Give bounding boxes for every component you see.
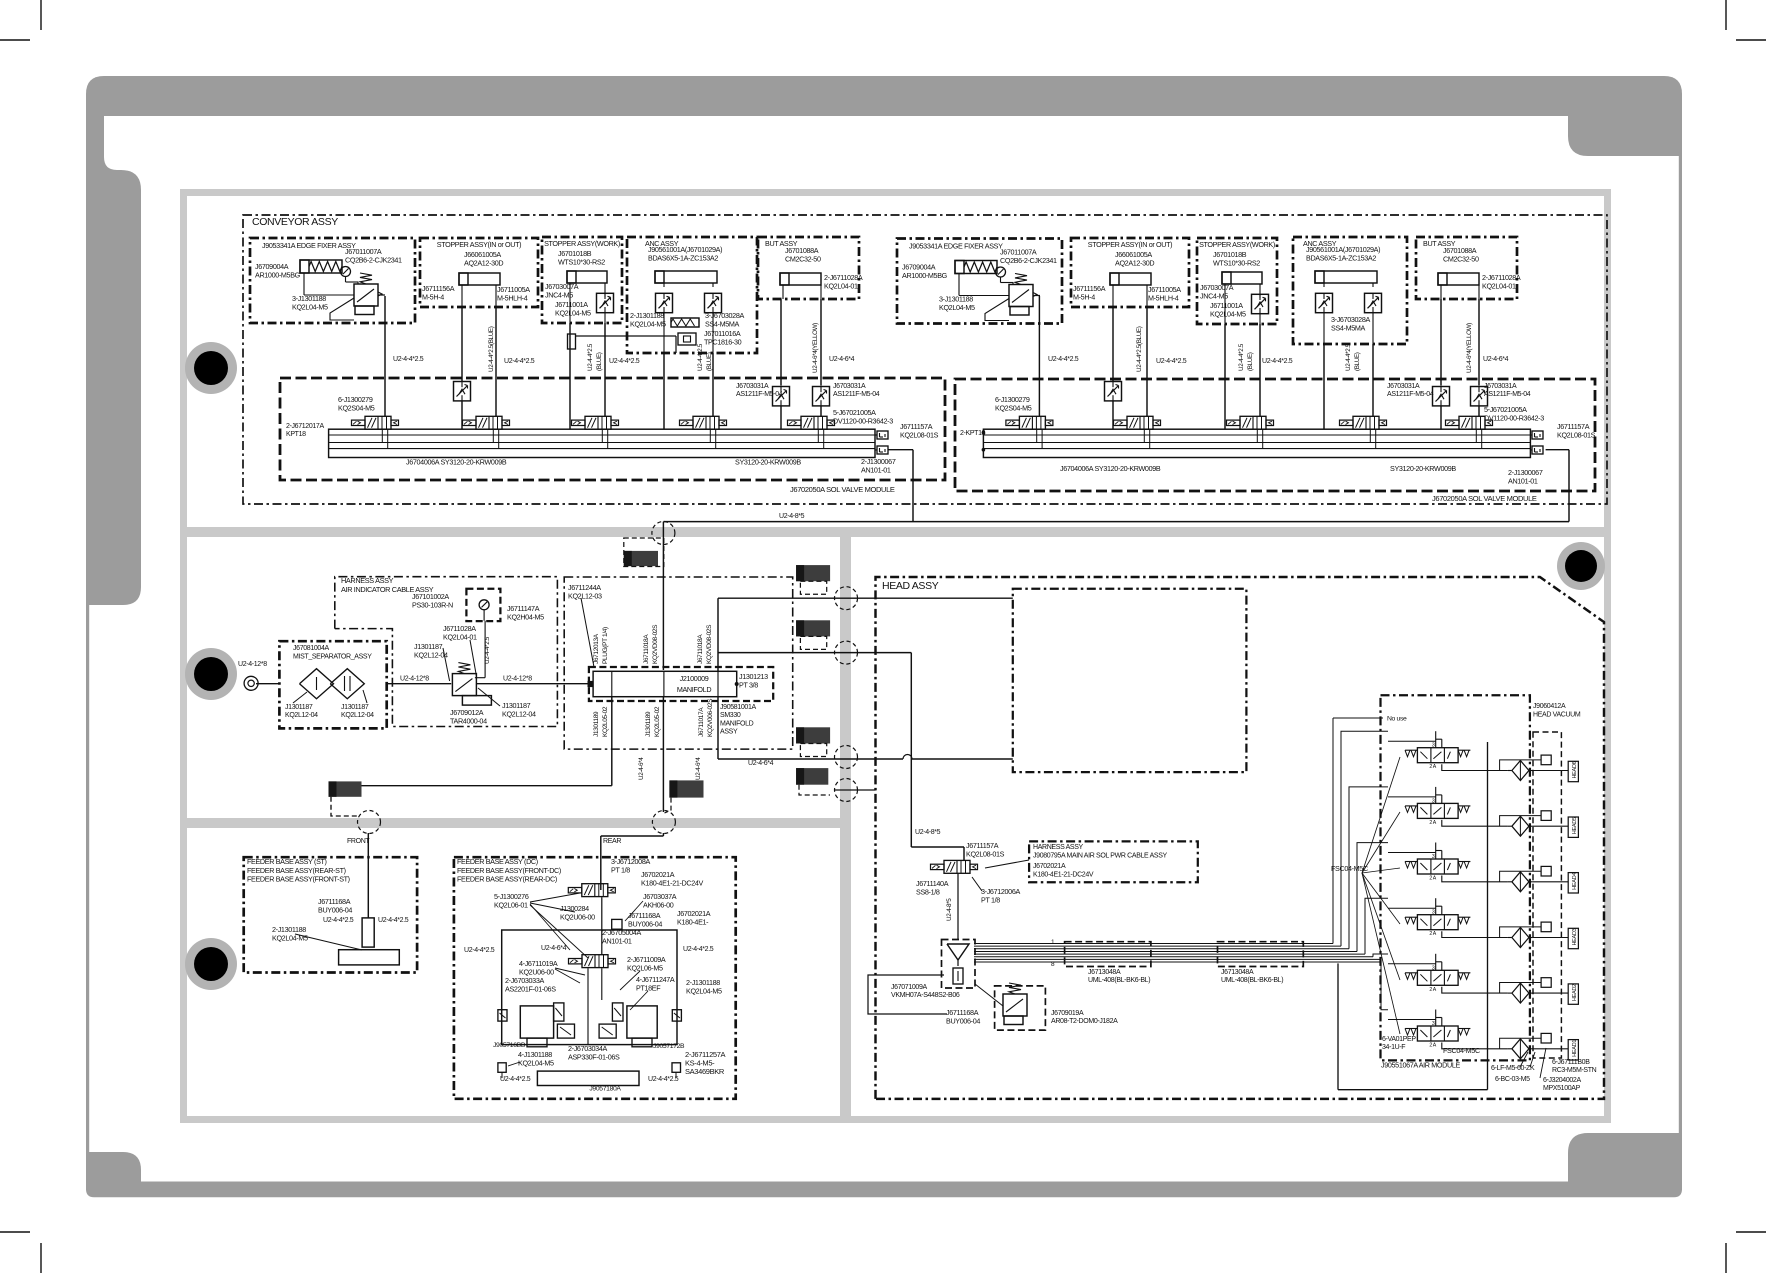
svg-text:BDAS6X5-1A-ZC153A2: BDAS6X5-1A-ZC153A2	[648, 253, 718, 262]
svg-text:MANIFOLD: MANIFOLD	[677, 685, 711, 694]
svg-text:J67081004A: J67081004A	[293, 645, 329, 652]
punch hole left 1	[185, 342, 237, 394]
BUT ASSY box	[1416, 237, 1517, 299]
punch hole left 2	[185, 648, 237, 700]
HARNESS ASSY power cable box	[1029, 841, 1198, 882]
head valve unit HEAD5	[1417, 803, 1458, 818]
black connector right column 4	[796, 768, 828, 785]
regulator AR08 dashed box	[995, 986, 1046, 1030]
center line down to feeder	[662, 697, 664, 812]
cylinder BDAS6X5	[1315, 271, 1377, 283]
svg-text:J6711018A: J6711018A	[643, 634, 650, 664]
cylinder CQ2B6 (spring return)	[955, 261, 997, 274]
svg-text:UML-408(BL-BK6-BL): UML-408(BL-BK6-BL)	[1221, 977, 1283, 984]
svg-text:KQ2VD08-02S: KQ2VD08-02S	[706, 624, 713, 664]
svg-text:6-BC-03-M5: 6-BC-03-M5	[1495, 1076, 1530, 1083]
pressure switch dashed box	[466, 589, 500, 621]
mist filter 2	[330, 669, 364, 699]
svg-text:PLUG(PT 1/4): PLUG(PT 1/4)	[602, 627, 609, 664]
svg-text:KQ2L04-M5: KQ2L04-M5	[1210, 309, 1246, 318]
valve bank risers	[1332, 718, 1334, 944]
solenoid valve SY3120	[1019, 416, 1045, 429]
svg-text:BDAS6X5-1A-ZC153A2: BDAS6X5-1A-ZC153A2	[1306, 253, 1376, 262]
svg-text:J6711018A: J6711018A	[697, 634, 704, 664]
svg-text:AR1000-M5BG: AR1000-M5BG	[902, 271, 948, 280]
svg-text:BUY006-04: BUY006-04	[318, 905, 352, 914]
outer gray binder frame	[86, 76, 1682, 1197]
svg-text:U2-4-4*2.5(BLUE): U2-4-4*2.5(BLUE)	[1136, 326, 1143, 372]
svg-text:U2-4-4*2.5: U2-4-4*2.5	[1048, 356, 1079, 363]
EDGE FIXER ASSY box	[250, 238, 415, 323]
svg-text:J6703031A: J6703031A	[1387, 383, 1420, 390]
air inlet symbol	[244, 676, 258, 690]
svg-text:KQ2L04-M5: KQ2L04-M5	[272, 933, 308, 942]
svg-text:U2-4-4*2.5: U2-4-4*2.5	[378, 917, 409, 924]
FEEDER BASE ASSY (ST) box	[244, 857, 417, 972]
STOPPER ASSY(WORK) box	[542, 237, 622, 323]
head port box HEAD3	[1568, 928, 1578, 948]
svg-text:J6711017A: J6711017A	[698, 707, 705, 737]
head port box HEAD4	[1568, 873, 1578, 893]
svg-text:SY3120-20-KRW009B: SY3120-20-KRW009B	[1390, 464, 1456, 473]
air module box	[1381, 695, 1530, 1060]
svg-text:M-5H-4: M-5H-4	[422, 292, 444, 301]
feeder bottom bar	[537, 1071, 639, 1085]
svg-text:KQ2V006-02S: KQ2V006-02S	[707, 698, 714, 737]
svg-text:PS30-103R-N: PS30-103R-N	[412, 600, 453, 609]
svg-text:(BLUE): (BLUE)	[596, 352, 603, 371]
svg-text:U2-4-4*2.5: U2-4-4*2.5	[323, 917, 354, 924]
CONVEYOR ASSY outer box	[243, 215, 1607, 504]
svg-text:U2-4-4*2.5: U2-4-4*2.5	[587, 343, 594, 371]
head collector line	[1487, 742, 1489, 1057]
svg-text:U2-4-12*8: U2-4-12*8	[503, 676, 532, 683]
black connector block front feed	[329, 781, 362, 796]
feeder ST valve	[362, 918, 374, 947]
svg-text:SS4-M5MA: SS4-M5MA	[705, 319, 740, 328]
svg-text:DV1120-00-R3642-3: DV1120-00-R3642-3	[833, 416, 893, 425]
wire stopper-io to valve2 (right)	[1112, 307, 1114, 382]
head valve unit HEAD3	[1417, 915, 1458, 930]
solenoid valve SY3120	[1459, 416, 1485, 429]
port square HEAD5	[1541, 811, 1551, 821]
svg-text:U2-4-6*4: U2-4-6*4	[541, 945, 567, 952]
feeder valve K180 mid	[582, 955, 608, 968]
flow fittings cluster	[498, 1010, 507, 1021]
svg-text:AR08-T2-DOM0-J182A: AR08-T2-DOM0-J182A	[1051, 1018, 1118, 1025]
svg-text:AS1211F-M5-04: AS1211F-M5-04	[833, 391, 880, 398]
HARNESS ASSY / AIR INDICATOR CABLE ASSY box (L-shape)	[335, 577, 558, 727]
crop mark top-right	[1726, 0, 1766, 40]
black connector right column 2	[796, 620, 830, 636]
svg-text:JNC4-M5: JNC4-M5	[545, 290, 573, 299]
svg-text:CM2C32-50: CM2C32-50	[785, 254, 821, 263]
svg-text:ASP330F-01-06S: ASP330F-01-06S	[568, 1052, 620, 1061]
wire anc to valve4 (right)	[1323, 344, 1325, 429]
EDGE FIXER ASSY box	[897, 239, 1062, 324]
black connector bottom-middle	[669, 780, 703, 797]
lug on stopper-w wire	[568, 334, 576, 349]
svg-text:KPT18: KPT18	[286, 431, 306, 438]
svg-text:HEAD VACUUM: HEAD VACUUM	[1533, 711, 1581, 718]
manifold body J2100009	[593, 671, 737, 696]
main air line	[256, 683, 279, 685]
wire anc to valve4	[663, 353, 665, 429]
svg-text:WTS10*30-RS2: WTS10*30-RS2	[558, 257, 605, 266]
wire but to valve5 with AS1211F flow controls	[780, 299, 782, 386]
svg-text:KQ2L06-01: KQ2L06-01	[494, 900, 528, 909]
svg-text:U2-4-6*4: U2-4-6*4	[1483, 356, 1509, 363]
svg-text:U2-4-12*8: U2-4-12*8	[238, 661, 267, 668]
svg-text:U2-4-4*2.5: U2-4-4*2.5	[697, 343, 704, 371]
svg-text:KQ2L04-M5: KQ2L04-M5	[630, 319, 666, 328]
svg-text:K180-4E1-21-DC24V: K180-4E1-21-DC24V	[641, 878, 704, 887]
svg-text:U2-4-4*2.5: U2-4-4*2.5	[500, 1076, 531, 1083]
bundle dashed sleeve 2	[1218, 942, 1304, 967]
svg-text:PT 3/8: PT 3/8	[739, 680, 758, 689]
gauge	[996, 267, 1006, 277]
no use line	[1333, 717, 1383, 719]
svg-text:KQ2L06-M5: KQ2L06-M5	[627, 963, 663, 972]
svg-text:2-KPT18: 2-KPT18	[960, 430, 986, 437]
svg-text:U2-4-12*8: U2-4-12*8	[400, 676, 429, 683]
filter diamond HEAD2	[1512, 983, 1529, 1003]
wire stopper-w to valve3 (right)	[1224, 324, 1226, 429]
filter diamond HEAD4	[1512, 872, 1529, 892]
head port box HEAD6	[1568, 761, 1578, 781]
svg-text:FEEDER BASE ASSY(FRONT-ST): FEEDER BASE ASSY(FRONT-ST)	[247, 875, 350, 884]
svg-text:J905716BB: J905716BB	[493, 1042, 526, 1049]
crop mark bottom-right	[1726, 1232, 1766, 1273]
front feed line	[611, 697, 613, 786]
svg-text:3: 3	[1432, 798, 1435, 804]
svg-text:2 A: 2 A	[1429, 987, 1436, 993]
svg-text:2-J6712017A: 2-J6712017A	[286, 423, 324, 430]
svg-text:ASSY: ASSY	[720, 729, 738, 736]
head port box HEAD5	[1568, 817, 1578, 837]
svg-text:U2-4-6*4: U2-4-6*4	[638, 757, 645, 780]
head valve unit HEAD2	[1417, 970, 1458, 985]
svg-text:TPC1816-30: TPC1816-30	[704, 337, 742, 346]
manifold rails	[329, 429, 875, 457]
svg-text:STOPPER ASSY(WORK): STOPPER ASSY(WORK)	[1199, 240, 1275, 249]
SOL VALVE MODULE box	[280, 378, 945, 480]
cylinder WTS10	[567, 271, 607, 283]
svg-text:KQ2L05-02: KQ2L05-02	[654, 706, 661, 737]
svg-text:KQ2L12-03: KQ2L12-03	[568, 591, 602, 600]
manifold rails	[983, 429, 1530, 457]
svg-text:CQ2B6-2-CJK2341: CQ2B6-2-CJK2341	[345, 255, 402, 264]
svg-text:JNC4-M5: JNC4-M5	[1200, 291, 1228, 300]
cylinder CM2C32	[1438, 273, 1479, 285]
flow control pair	[656, 293, 673, 312]
port fittings right module	[1532, 431, 1543, 439]
svg-text:FRONT: FRONT	[347, 838, 370, 845]
head valve unit HEAD1	[1417, 1026, 1458, 1041]
ANC ASSY box (right)	[1293, 237, 1407, 344]
svg-text:HARNESS ASSY: HARNESS ASSY	[1033, 844, 1084, 851]
svg-text:U2-4-4*2.5: U2-4-4*2.5	[609, 358, 640, 365]
punch hole right	[1557, 542, 1605, 590]
svg-text:SS8-1/8: SS8-1/8	[916, 887, 940, 896]
line to regulator	[868, 975, 947, 1014]
svg-text:KQ2L04-M5: KQ2L04-M5	[555, 308, 591, 317]
svg-text:AS1211F-M5-04: AS1211F-M5-04	[1484, 391, 1531, 398]
FSC04 fan leader lines	[1362, 757, 1400, 873]
feeder DC labels and symbols	[600, 884, 602, 890]
svg-text:HEAD ASSY: HEAD ASSY	[882, 580, 939, 592]
port square HEAD3	[1541, 922, 1551, 932]
svg-text:AKH06-00: AKH06-00	[643, 900, 674, 909]
wire manifold to head line2	[718, 652, 911, 654]
svg-text:KQ2L12-04: KQ2L12-04	[414, 650, 448, 659]
svg-text:J1301187: J1301187	[341, 704, 369, 711]
cylinder CQ2B6 (spring return)	[300, 260, 342, 273]
svg-text:U2-4-4*2.5: U2-4-4*2.5	[648, 1076, 679, 1083]
svg-text:STOPPER ASSY(IN or OUT): STOPPER ASSY(IN or OUT)	[437, 240, 521, 249]
svg-text:FEEDER BASE ASSY (ST): FEEDER BASE ASSY (ST)	[247, 857, 327, 866]
svg-text:SY3120-20-KRW009B: SY3120-20-KRW009B	[735, 458, 801, 467]
bundle dashed sleeve 1	[1065, 942, 1151, 967]
regulator AR1000	[354, 284, 378, 306]
svg-text:U2-4-8*5: U2-4-8*5	[946, 898, 953, 921]
port square HEAD6	[1541, 755, 1551, 765]
filter diamond HEAD1	[1512, 1039, 1529, 1059]
svg-text:PT 1/8: PT 1/8	[611, 865, 630, 874]
svg-text:KQ2H04-M5: KQ2H04-M5	[507, 612, 544, 621]
filter diamond HEAD5	[1512, 816, 1529, 836]
svg-text:U2-4-4*2.5: U2-4-4*2.5	[1345, 343, 1352, 371]
wire stopper-io to valve2 (a)	[461, 307, 463, 382]
svg-text:AS1211F-M5-04: AS1211F-M5-04	[736, 391, 783, 398]
bottom fittings	[498, 1063, 506, 1073]
svg-text:KQ2L08-01S: KQ2L08-01S	[900, 430, 939, 439]
solenoid valve SY3120	[1240, 416, 1266, 429]
svg-text:U2-4-8*5: U2-4-8*5	[779, 513, 805, 520]
svg-text:J9060412A: J9060412A	[1533, 703, 1566, 710]
svg-text:AN101-01: AN101-01	[602, 936, 632, 945]
svg-text:FEEDER BASE ASSY(FRONT-DC): FEEDER BASE ASSY(FRONT-DC)	[457, 866, 561, 875]
svg-text:J6702050A SOL VALVE MODULE: J6702050A SOL VALVE MODULE	[1432, 494, 1537, 503]
filter diamond HEAD6	[1512, 761, 1529, 781]
wire stopper-w to valve3	[569, 323, 571, 429]
svg-text:2 A: 2 A	[1429, 820, 1436, 826]
svg-text:SA3469BKR: SA3469BKR	[685, 1067, 725, 1076]
svg-text:KQ2L08-01S: KQ2L08-01S	[1557, 430, 1596, 439]
MIST_SEPARATOR_ASSY box	[279, 641, 386, 728]
head port box HEAD1	[1568, 1040, 1578, 1060]
wire stopper-io to valve2 (b)	[495, 307, 497, 416]
BUT ASSY box	[758, 237, 859, 299]
svg-text:HEAD3: HEAD3	[1572, 928, 1578, 945]
svg-text:J6704006A SY3120-20-KRW009B: J6704006A SY3120-20-KRW009B	[1060, 464, 1161, 473]
flow control JNC4	[597, 293, 614, 312]
svg-text:6-LF-M5-60-ZK: 6-LF-M5-60-ZK	[1491, 1065, 1535, 1072]
solenoid valve SY3120	[365, 416, 391, 429]
svg-text:KQ2L12-04: KQ2L12-04	[341, 712, 374, 719]
port fittings left module	[877, 431, 888, 439]
STOPPER ASSY(IN or OUT) box	[1071, 238, 1189, 307]
svg-text:34-1U-F: 34-1U-F	[1382, 1044, 1405, 1051]
regulator TAR4000	[452, 674, 476, 696]
svg-text:J9057172B: J9057172B	[653, 1043, 685, 1050]
svg-text:U2-4-4*2.5: U2-4-4*2.5	[683, 946, 714, 953]
svg-text:BUY006-04: BUY006-04	[946, 1016, 980, 1025]
svg-text:KQ2L12-04: KQ2L12-04	[285, 712, 318, 719]
svg-text:J6713048A: J6713048A	[1088, 969, 1121, 976]
spring actuator TPC1816	[671, 318, 699, 327]
svg-text:J6703031A: J6703031A	[1484, 383, 1517, 390]
svg-text:HARNESS ASSY: HARNESS ASSY	[341, 576, 394, 585]
svg-text:FEEDER BASE ASSY (DC): FEEDER BASE ASSY (DC)	[457, 857, 538, 866]
svg-text:No use: No use	[1387, 716, 1407, 723]
head port box HEAD2	[1568, 984, 1578, 1004]
svg-text:KQ2S04-M5: KQ2S04-M5	[338, 403, 375, 412]
svg-text:U2-4-6*4(YELLOW): U2-4-6*4(YELLOW)	[812, 323, 819, 373]
pressure gauge PS30	[479, 600, 489, 610]
svg-text:J6702021A: J6702021A	[1033, 863, 1066, 870]
punch hole left 3	[185, 938, 237, 990]
SM330 manifold dashed box	[589, 667, 773, 701]
filter diamond HEAD3	[1512, 928, 1529, 948]
wire edge-fixer to valve1	[384, 296, 386, 416]
svg-text:K180-4E1-: K180-4E1-	[677, 917, 709, 926]
svg-text:J6702050A SOL VALVE MODULE: J6702050A SOL VALVE MODULE	[790, 485, 895, 494]
svg-text:U2-4-4*2.5: U2-4-4*2.5	[464, 947, 495, 954]
main air valve J6711157A	[910, 839, 912, 847]
svg-text:HEAD4: HEAD4	[1572, 873, 1578, 890]
svg-text:CM2C32-50: CM2C32-50	[1443, 254, 1479, 263]
svg-text:J1301189: J1301189	[593, 711, 600, 737]
svg-text:STOPPER ASSY(IN or OUT): STOPPER ASSY(IN or OUT)	[1088, 240, 1172, 249]
svg-text:AS1211F-M5-04: AS1211F-M5-04	[1387, 391, 1434, 398]
svg-text:J1301187: J1301187	[285, 704, 313, 711]
svg-text:KQ2L04-01: KQ2L04-01	[824, 281, 858, 290]
svg-text:J6703031A: J6703031A	[833, 383, 866, 390]
svg-text:U2-4-4*2.5: U2-4-4*2.5	[484, 636, 491, 664]
svg-text:HEAD6: HEAD6	[1572, 761, 1578, 778]
svg-text:FSC04-M5C: FSC04-M5C	[1443, 1046, 1480, 1055]
feeder valve K180 top	[582, 884, 608, 897]
big reserved rectangle	[1013, 589, 1247, 772]
svg-text:J9053341A EDGE FIXER ASSY: J9053341A EDGE FIXER ASSY	[262, 241, 356, 250]
black connector top-middle	[624, 551, 658, 566]
junction circle to middle section	[652, 522, 675, 545]
front wire into ST box	[367, 846, 369, 918]
svg-text:KQ2L04-01: KQ2L04-01	[443, 632, 477, 641]
svg-text:KQ2L04-M5: KQ2L04-M5	[518, 1058, 554, 1067]
wire manifold to head line3	[717, 697, 719, 759]
svg-text:(BLUE): (BLUE)	[1354, 352, 1361, 371]
solenoid valve SY3120	[693, 416, 719, 429]
svg-text:M-5HLH-4: M-5HLH-4	[1148, 293, 1179, 302]
svg-text:STOPPER ASSY(WORK): STOPPER ASSY(WORK)	[544, 239, 620, 248]
svg-text:U2-4-6*4: U2-4-6*4	[829, 356, 855, 363]
fitting BUY006	[612, 919, 622, 929]
svg-text:KQ2L04-M5: KQ2L04-M5	[292, 302, 328, 311]
svg-text:J90551067A AIR MODULE: J90551067A AIR MODULE	[1381, 1061, 1461, 1070]
vacuum source dashed box	[942, 940, 976, 989]
svg-text:6-J3204002A: 6-J3204002A	[1543, 1077, 1581, 1084]
gauge	[341, 267, 351, 277]
feeder motor right	[627, 1006, 657, 1038]
svg-text:K180-4E1-21-DC24V: K180-4E1-21-DC24V	[1033, 872, 1094, 879]
svg-text:U2-4-4*2.5: U2-4-4*2.5	[1262, 358, 1293, 365]
wire edge-fixer to valve1 (right)	[1038, 296, 1040, 416]
ANC ASSY box (left)	[627, 237, 757, 353]
svg-text:AS2201F-01-06S: AS2201F-01-06S	[505, 984, 556, 993]
wire but to valve5 (right) with AS1211F flow controls	[1440, 299, 1442, 386]
svg-text:KQ2L08-01S: KQ2L08-01S	[966, 849, 1005, 858]
svg-text:MPX5100AP: MPX5100AP	[1543, 1085, 1581, 1092]
flow control pair	[1316, 293, 1333, 312]
flow control JNC4	[1252, 294, 1269, 313]
svg-text:U2-4-4*2.5: U2-4-4*2.5	[1156, 358, 1187, 365]
svg-text:KQ2L04-01: KQ2L04-01	[1482, 281, 1516, 290]
svg-text:J9080795A MAIN AIR SOL PWR CAB: J9080795A MAIN AIR SOL PWR CABLE ASSY	[1033, 853, 1168, 860]
svg-text:U2-4-8*5: U2-4-8*5	[915, 829, 941, 836]
svg-text:KQ2L04-M5: KQ2L04-M5	[939, 303, 975, 312]
head valve unit HEAD6	[1417, 748, 1458, 763]
cylinder BDAS6X5	[655, 271, 717, 283]
black connector right column 3	[796, 727, 830, 743]
solenoid valve SY3120	[1127, 416, 1153, 429]
svg-text:3: 3	[1432, 1021, 1435, 1027]
svg-text:RC3-M5M-STN: RC3-M5M-STN	[1552, 1067, 1597, 1074]
svg-text:AQ2A12-30D: AQ2A12-30D	[1115, 258, 1154, 267]
svg-text:TAR4000-04: TAR4000-04	[450, 716, 487, 725]
svg-text:CQ2B6-2-CJK2341: CQ2B6-2-CJK2341	[1000, 256, 1057, 265]
svg-text:M-5HLH-4: M-5HLH-4	[497, 293, 528, 302]
svg-text:SM330: SM330	[720, 712, 741, 719]
feeder inner frame	[502, 930, 677, 1045]
svg-text:AR1000-M5BG: AR1000-M5BG	[255, 270, 301, 279]
svg-text:3: 3	[1432, 743, 1435, 749]
STOPPER ASSY(WORK) box	[1197, 238, 1277, 324]
regulator AR1000	[1009, 285, 1033, 307]
svg-text:KQ2L04-M5: KQ2L04-M5	[686, 986, 722, 995]
black connector right column 1	[796, 565, 830, 581]
svg-text:HEAD1: HEAD1	[1572, 1040, 1578, 1057]
svg-text:FEEDER BASE ASSY(REAR-ST): FEEDER BASE ASSY(REAR-ST)	[247, 866, 346, 875]
svg-text:6-VA01PEP: 6-VA01PEP	[1382, 1036, 1416, 1043]
solenoid valve SY3120	[476, 416, 502, 429]
svg-text:2 A: 2 A	[1429, 1043, 1436, 1049]
svg-text:PT18EF: PT18EF	[636, 983, 661, 992]
FEEDER BASE ASSY (DC) box	[454, 857, 736, 1099]
svg-text:J6704006A SY3120-20-KRW009B: J6704006A SY3120-20-KRW009B	[406, 458, 507, 467]
inner content border (light gray)	[180, 189, 1611, 1123]
vacuum ejector funnel	[947, 944, 969, 960]
solenoid valve SY3120	[801, 416, 827, 429]
port square HEAD1	[1541, 1033, 1551, 1043]
svg-text:AQ2A12-30D: AQ2A12-30D	[464, 258, 503, 267]
svg-text:MANIFOLD: MANIFOLD	[720, 720, 754, 727]
svg-text:KQ2S04-M5: KQ2S04-M5	[995, 403, 1032, 412]
svg-text:3: 3	[1432, 910, 1435, 916]
svg-text:J9053341A EDGE FIXER ASSY: J9053341A EDGE FIXER ASSY	[909, 242, 1003, 251]
head vacuum dashed box	[1533, 732, 1561, 1058]
wire manifold to head line1	[717, 598, 719, 671]
svg-text:HEAD2: HEAD2	[1572, 984, 1578, 1001]
svg-text:DV1120-00-R3642-3: DV1120-00-R3642-3	[1484, 413, 1544, 422]
svg-text:CONVEYOR ASSY: CONVEYOR ASSY	[252, 216, 338, 228]
svg-text:FEEDER BASE ASSY(REAR-DC): FEEDER BASE ASSY(REAR-DC)	[457, 875, 557, 884]
svg-text:M-5H-4: M-5H-4	[1073, 292, 1095, 301]
svg-text:KQ2L05-02: KQ2L05-02	[602, 706, 609, 737]
svg-text:3: 3	[1432, 854, 1435, 860]
svg-text:(BLUE): (BLUE)	[706, 352, 713, 371]
